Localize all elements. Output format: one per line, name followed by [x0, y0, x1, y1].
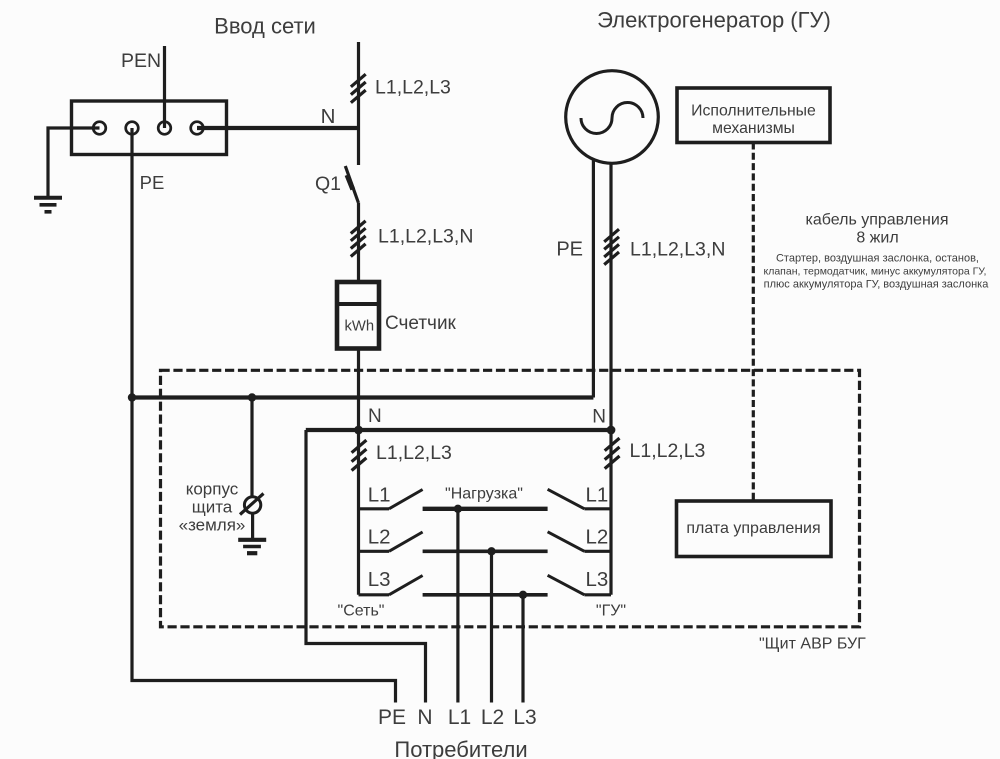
svg-text:«земля»: «земля» — [179, 516, 246, 535]
dashed enclosure Щит АВР БУГ — [161, 370, 860, 627]
svg-text:kWh: kWh — [345, 319, 375, 335]
svg-text:N: N — [592, 407, 606, 428]
svg-text:L1: L1 — [448, 706, 471, 729]
wire N bus horizontal — [306, 428, 611, 432]
terminal 1 — [93, 122, 106, 135]
svg-text:L1,L2,L3: L1,L2,L3 — [630, 440, 706, 462]
svg-text:Исполнительные: Исполнительные — [691, 103, 816, 120]
svg-text:кабель управления: кабель управления — [806, 212, 949, 229]
svg-text:L3: L3 — [513, 706, 536, 729]
box Исполнительные механизмы — [677, 88, 830, 143]
chassis terminal slash — [240, 494, 264, 515]
svg-text:8 жил: 8 жил — [856, 230, 898, 247]
junction N/meter — [354, 426, 363, 435]
switch row L1 (mains contact) — [359, 490, 423, 509]
svg-text:"Сеть": "Сеть" — [338, 602, 385, 619]
svg-text:L1,L2,L3: L1,L2,L3 — [376, 442, 452, 464]
junction L1 tap — [454, 505, 462, 513]
svg-text:плата управления: плата управления — [686, 520, 820, 537]
svg-text:щита: щита — [192, 497, 233, 516]
terminal block X1 — [72, 101, 227, 155]
svg-text:Счетчик: Счетчик — [385, 313, 457, 334]
chassis earth branch — [250, 398, 253, 497]
generator sine symbol — [581, 103, 643, 134]
svg-text:"Нагрузка": "Нагрузка" — [445, 486, 523, 503]
slash marks L1,L2,L3,N (generator) — [604, 229, 619, 264]
svg-text:L1: L1 — [368, 484, 391, 507]
svg-text:Потребители: Потребители — [394, 737, 527, 759]
junction PE/left — [128, 393, 136, 401]
ground (left earth electrode) — [34, 198, 62, 212]
label кабель управления 8 жил — [764, 212, 990, 291]
slash marks L1,L2,L3 (left bus) — [352, 440, 367, 470]
svg-text:Ввод сети: Ввод сети — [214, 14, 316, 39]
wire right bus (generator side) — [609, 430, 612, 595]
svg-text:N: N — [417, 706, 432, 729]
svg-text:PE: PE — [556, 239, 583, 261]
wire N down to consumers — [306, 430, 426, 703]
svg-text:L3: L3 — [586, 568, 609, 591]
wire mains bus upper — [357, 42, 360, 165]
wire generator PE lead — [592, 160, 595, 398]
slash marks L1,L2,L3 (right bus) — [605, 438, 620, 469]
wire meter down — [357, 349, 360, 430]
ground (chassis) — [238, 540, 266, 553]
switch row L2 (mains contact) — [359, 532, 423, 551]
meter kWh — [337, 282, 379, 349]
terminal 2 — [126, 122, 139, 135]
load bar L2 — [423, 549, 548, 553]
svg-text:N: N — [368, 406, 382, 427]
wire N from block to bus — [197, 126, 359, 130]
wire to earth — [48, 128, 100, 196]
wire PEN drop — [163, 46, 166, 128]
svg-text:L2: L2 — [368, 526, 391, 549]
svg-text:L3: L3 — [368, 568, 391, 591]
svg-text:Стартер, воздушная заслонка, о: Стартер, воздушная заслонка, останов, — [776, 253, 979, 265]
svg-text:Электрогенератор (ГУ): Электрогенератор (ГУ) — [597, 8, 831, 33]
wire to chassis ground — [251, 513, 254, 538]
svg-text:L1,L2,L3,N: L1,L2,L3,N — [378, 226, 473, 248]
switch row L1 (generator contact) — [548, 489, 611, 509]
wire Q1 to meter — [357, 203, 360, 283]
box плата управления — [677, 501, 832, 557]
svg-text:L1,L2,L3,N: L1,L2,L3,N — [630, 239, 725, 261]
svg-text:L2: L2 — [586, 526, 609, 549]
chassis terminal circle — [244, 497, 260, 513]
svg-text:PE: PE — [378, 706, 406, 729]
label корпус щита «земля» — [179, 480, 246, 535]
slash marks L1,L2,L3 (mains) — [351, 74, 366, 103]
svg-text:L1,L2,L3: L1,L2,L3 — [375, 77, 451, 99]
wire PE down-left — [132, 128, 396, 703]
svg-text:механизмы: механизмы — [712, 120, 795, 137]
svg-text:корпус: корпус — [186, 480, 239, 499]
wire PE bus horizontal — [132, 395, 593, 399]
svg-text:"ГУ": "ГУ" — [596, 602, 626, 619]
wire L3 to consumers — [521, 595, 524, 703]
svg-text:PE: PE — [140, 172, 165, 193]
svg-text:Q1: Q1 — [315, 173, 341, 195]
slash marks L1,L2,L3,N (after Q1) — [351, 221, 366, 257]
switch row L2 (generator contact) — [548, 532, 611, 552]
terminal 4 — [191, 122, 204, 135]
generator G circle — [566, 71, 659, 164]
switch row L3 (generator contact) — [548, 575, 611, 595]
svg-text:"Щит АВР БУГ: "Щит АВР БУГ — [759, 636, 866, 653]
breaker Q1 — [345, 166, 358, 203]
wire generator L1L2L3N lead — [609, 163, 612, 430]
junction N/generator — [607, 426, 616, 435]
wire L2 to consumers — [490, 551, 493, 702]
svg-text:PEN: PEN — [121, 50, 161, 72]
junction PE/chassis — [248, 393, 256, 401]
load bar L3 — [423, 593, 548, 597]
svg-text:L1: L1 — [586, 484, 609, 507]
wire L1 to consumers — [456, 509, 459, 703]
junction L3 tap — [519, 591, 527, 599]
terminal 3 — [158, 122, 171, 135]
load bar L1 — [423, 507, 548, 511]
control cable dashed wire — [752, 143, 755, 502]
svg-text:плюс аккумулятора ГУ, воздушна: плюс аккумулятора ГУ, воздушная заслонка — [764, 279, 990, 291]
wire left bus (mains side) — [357, 430, 360, 595]
svg-text:N: N — [321, 105, 336, 128]
switch row L3 (mains contact) — [359, 576, 423, 595]
junction L2 tap — [487, 547, 495, 555]
svg-text:L2: L2 — [481, 706, 504, 729]
svg-text:клапан, термодатчик, минус акк: клапан, термодатчик, минус аккумулятора … — [764, 266, 987, 278]
